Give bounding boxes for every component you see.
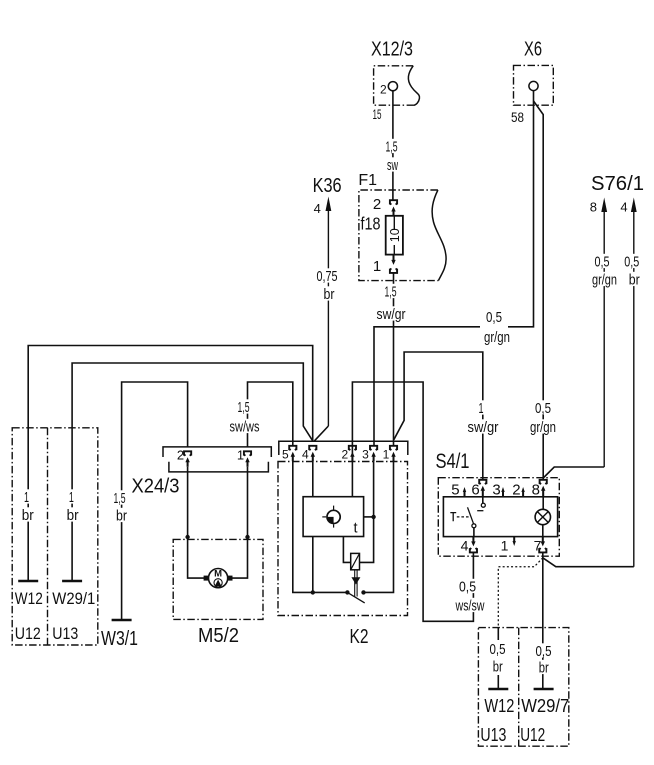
svg-text:15: 15: [373, 106, 382, 122]
svg-text:br: br: [629, 272, 640, 289]
svg-text:4: 4: [302, 448, 309, 462]
wire K36 to K2 pin 4, 0,75 br: [314, 426, 328, 441]
ground point boxes U13 / U12 (right): [478, 628, 569, 747]
svg-text:8: 8: [590, 200, 597, 215]
svg-text:1: 1: [24, 489, 29, 506]
wire S76/1 pin 8 to S4/1 pin 8, 0,5 gr/gn: [543, 467, 604, 478]
ground point boxes U12 / U13 (left): [12, 428, 98, 645]
wire S76/1 pin 4 to S4/1 pin 7, 0,5 br: [543, 558, 634, 567]
ground W29/7: [534, 688, 554, 691]
svg-text:F1: F1: [358, 172, 377, 189]
K2 internal: timer to relay coil: [343, 537, 350, 563]
svg-text:W12: W12: [484, 696, 514, 716]
svg-text:2: 2: [342, 448, 349, 462]
svg-text:sw: sw: [387, 157, 398, 174]
wire X24/3 pin 1 to K2 pin 5, 1,5 sw/ws: [248, 382, 293, 447]
svg-text:U13: U13: [52, 624, 78, 643]
ground W29/1: [62, 580, 82, 583]
svg-text:br: br: [324, 286, 335, 303]
svg-text:0,75: 0,75: [317, 268, 338, 285]
wire ground bus to K2 pin 4, 1 br to W29/1: [72, 363, 313, 581]
ground W12 (lower): [488, 688, 508, 691]
wire X12/3 pin 2 to fuse F1 pin 2, 1,5 sw: [392, 91, 394, 200]
svg-text:U12: U12: [15, 624, 41, 643]
wire K2 pin 2 to S4/1 pin 4, 0,5 ws/sw: [352, 382, 473, 621]
K2 box: [278, 462, 408, 616]
K2 internal: timer to rail: [312, 537, 314, 593]
K2 internal: switch contact right: [361, 590, 365, 594]
wire X6 terminal 58 to K2 pin 3, 0,5 gr/gn: [374, 91, 534, 446]
K2 internal: coil plunger with arrow: [354, 570, 356, 597]
K2 internal: rail to pin 1: [364, 461, 394, 592]
svg-text:2: 2: [512, 482, 520, 499]
svg-text:M5/2: M5/2: [198, 625, 239, 647]
svg-text:3: 3: [362, 448, 369, 462]
svg-text:K36: K36: [313, 175, 342, 197]
svg-text:1,5: 1,5: [386, 139, 398, 156]
wire fuse F1 pin 1 to K2 pin 1, 1,5 sw/gr: [393, 274, 395, 446]
svg-text:br: br: [539, 660, 549, 677]
svg-text:sw/ws: sw/ws: [230, 419, 260, 436]
svg-text:4: 4: [314, 201, 321, 216]
svg-text:4: 4: [620, 200, 627, 215]
svg-text:0,5: 0,5: [535, 400, 551, 417]
svg-text:sw/gr: sw/gr: [468, 419, 499, 436]
svg-text:S76/1: S76/1: [591, 173, 644, 195]
svg-text:W12: W12: [15, 589, 43, 608]
connector X12/3: [371, 39, 419, 123]
svg-text:ws/sw: ws/sw: [455, 598, 485, 615]
svg-text:1: 1: [373, 258, 381, 275]
wire S4/1 pin 7 to ground W29/7, 0,5 br: [542, 552, 544, 689]
wire ground bus to K2 pin 4, 1 br to W12: [28, 346, 313, 582]
wire S4/1 pin 6 to K2 pin 1, 1 sw/gr: [394, 352, 483, 480]
svg-text:t: t: [354, 521, 358, 537]
svg-text:gr/gn: gr/gn: [530, 419, 556, 436]
svg-text:X6: X6: [524, 39, 542, 61]
svg-text:1: 1: [383, 448, 390, 462]
K2 internal: pin 4 wire into timer box: [312, 461, 314, 497]
svg-text:58: 58: [511, 109, 524, 125]
svg-text:10: 10: [388, 228, 402, 242]
svg-text:X24/3: X24/3: [132, 476, 180, 498]
ground W3/1: [112, 619, 132, 622]
svg-text:0,5: 0,5: [459, 579, 476, 596]
ground W12: [18, 580, 38, 583]
wire W3/1 ground to X24/3 pin 2, 1,5 br: [122, 382, 188, 620]
svg-text:X12/3: X12/3: [371, 39, 413, 61]
K2 internal: pin 3 wire to coil: [360, 461, 374, 562]
svg-text:0,5: 0,5: [624, 254, 639, 271]
svg-text:0,5: 0,5: [490, 641, 506, 658]
svg-text:2: 2: [380, 82, 387, 96]
relay K2 pin header: [279, 441, 408, 455]
svg-text:M: M: [214, 569, 222, 580]
wire X24/3 pin 1 down to M5/2: [232, 467, 247, 578]
junction M5/2 terminal left: [185, 535, 189, 539]
svg-text:5: 5: [451, 482, 459, 499]
svg-text:2: 2: [373, 196, 381, 213]
junction timer/rail: [311, 590, 315, 594]
svg-text:7: 7: [534, 538, 542, 554]
svg-text:5: 5: [282, 448, 289, 462]
wire X24/3 pin 2 down to M5/2: [188, 467, 204, 578]
svg-text:U13: U13: [480, 725, 506, 745]
svg-text:S4/1: S4/1: [436, 450, 470, 473]
K2 internal: pin 5 wire to switch rail: [293, 461, 348, 592]
svg-text:1: 1: [479, 400, 484, 417]
svg-text:K2: K2: [350, 626, 369, 648]
svg-text:gr/gn: gr/gn: [484, 329, 510, 346]
svg-text:1,5: 1,5: [385, 284, 397, 301]
svg-text:2: 2: [177, 448, 184, 463]
wire X6 terminal 58 branch to S4/1 pin 8, 0,5 gr/gn: [534, 101, 544, 480]
F1 pin 1: [391, 255, 395, 265]
junction M5/2 terminal right: [245, 535, 249, 539]
svg-text:1,5: 1,5: [238, 399, 250, 416]
K2 internal: relay coil: [351, 553, 360, 569]
svg-text:br: br: [493, 659, 503, 676]
svg-text:4: 4: [461, 538, 469, 554]
svg-text:f18: f18: [361, 214, 381, 234]
svg-text:W3/1: W3/1: [101, 628, 138, 650]
svg-text:br: br: [22, 507, 34, 524]
svg-text:0,5: 0,5: [595, 254, 610, 271]
K2 internal: switch contact left: [345, 590, 349, 594]
svg-text:1,5: 1,5: [114, 490, 126, 507]
svg-text:0,5: 0,5: [486, 309, 502, 326]
svg-text:br: br: [116, 508, 127, 525]
S4/1 internal: illumination lamp: [535, 490, 550, 537]
svg-text:gr/gn: gr/gn: [592, 272, 617, 289]
svg-text:W29/7: W29/7: [521, 696, 569, 716]
S4/1 internal: temperature switch: [450, 497, 485, 537]
svg-text:W29/1: W29/1: [52, 589, 95, 608]
K2 internal: pin 3 to coil junction: [371, 515, 375, 519]
K2 internal: pin 2 wire into timer box: [351, 461, 353, 497]
svg-text:0,5: 0,5: [536, 643, 552, 660]
fuse F1 (f18, 10 A): [358, 172, 446, 281]
svg-text:br: br: [67, 507, 79, 524]
wire S4/1 pin 7 to ground W12 (option), 0,5 br dotted: [498, 558, 543, 628]
connector X6: [511, 39, 553, 126]
connector X24/3: [132, 447, 272, 498]
svg-text:3: 3: [492, 482, 500, 499]
K2 internal: switch blade: [347, 592, 364, 603]
S4/1 box: [438, 478, 559, 557]
svg-text:sw/gr: sw/gr: [377, 306, 406, 323]
K2 internal: timer box: [303, 497, 364, 537]
K2 internal: timer symbol: [322, 506, 340, 528]
motor M5/2 (washer pump): [173, 539, 263, 647]
svg-text:1: 1: [501, 538, 509, 554]
S4/1 inner housing: [443, 497, 557, 537]
svg-text:U12: U12: [520, 725, 545, 745]
svg-text:1: 1: [69, 489, 74, 506]
